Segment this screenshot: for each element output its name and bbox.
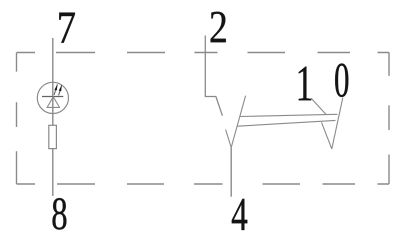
switch body outline (dashed box) top border: [17, 52, 390, 54]
contact fork left arm: [226, 130, 232, 148]
wire pin 2 and fixed contact: [205, 36, 222, 116]
LED light arrow 1: [54, 84, 57, 95]
switch body outline bottom border: [17, 183, 390, 185]
pin label 2: [211, 12, 226, 43]
position marker V left arm: [322, 122, 332, 149]
actuator bar top line: [240, 114, 338, 116]
position label 1: [299, 67, 311, 101]
pin label 7: [59, 13, 75, 43]
wire pin 7: [52, 38, 54, 125]
wire pin 4: [230, 148, 232, 197]
switch body outline right border: [388, 53, 390, 185]
LED triangle (anode): [47, 97, 59, 108]
LED light arrow 2: [59, 85, 62, 95]
LED cathode bar: [42, 96, 63, 98]
LED lamp circle: [37, 82, 68, 113]
movable contact lever: [231, 96, 245, 148]
pin label 4: [232, 199, 248, 230]
resistor: [49, 125, 57, 148]
position label 0: [335, 64, 348, 98]
switch body outline left border: [16, 53, 18, 185]
leader line for position 0: [332, 98, 343, 149]
pin label 8: [53, 198, 67, 230]
leader line for position 1: [311, 98, 326, 114]
actuator bar bottom line: [237, 120, 335, 126]
wire pin 8: [52, 149, 54, 196]
